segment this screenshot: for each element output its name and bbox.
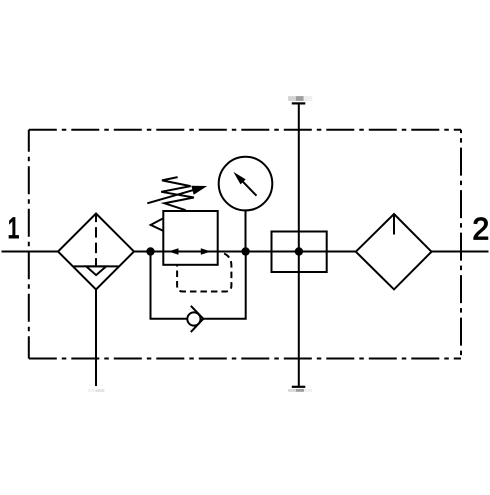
port label 1 [9,218,18,238]
bottom exhaust muffler shade [288,389,296,392]
filter F1 drain triangle [86,266,106,275]
filter F2 element line [393,216,395,235]
gauge G1 dial [219,157,273,211]
regulator R1 left arrowhead [168,248,178,255]
regulator R1 adjustment arrowhead [191,186,207,195]
bottom exhaust bar [292,386,306,388]
main flow line [134,251,356,253]
bypass line right [203,252,246,319]
regulator R1 body [163,211,217,265]
gauge G1 needle shaft [243,181,257,195]
output line to port 2 [431,251,488,253]
node B junction [241,247,249,255]
pilot exhaust vertical line [298,104,300,387]
node C junction [295,247,303,255]
check valve V1 ball [187,312,200,325]
regulator R1 adjustment arrow shaft [147,189,195,203]
enclosure border left [28,130,30,359]
top exhaust bar [292,102,306,104]
filter F1 body (diamond) [58,214,134,290]
gauge G1 needle arrowhead [233,172,245,185]
node A junction [146,247,154,255]
bypass line left [151,252,188,319]
filter F2 body (diamond) [356,214,432,289]
enclosure border bottom [29,358,461,360]
regulator R1 right arrowhead [201,248,211,254]
regulator R1 relief triangle [151,218,164,231]
drain end shade [88,389,96,392]
top exhaust muffler shade [288,96,296,101]
gauge G1 stem [245,210,247,251]
filter F1 drain line [95,290,97,387]
check valve V1 seat [191,306,204,332]
pilot dashed line [177,252,231,291]
enclosure border top [29,129,461,131]
enclosure border right [460,130,462,359]
port label 2 [474,218,488,240]
filter F1 separator chord [74,265,119,267]
port 1 line [2,251,59,253]
regulator R1 spring [161,177,194,210]
branch module body [272,232,327,273]
filter F1 dashed element line [95,214,97,266]
